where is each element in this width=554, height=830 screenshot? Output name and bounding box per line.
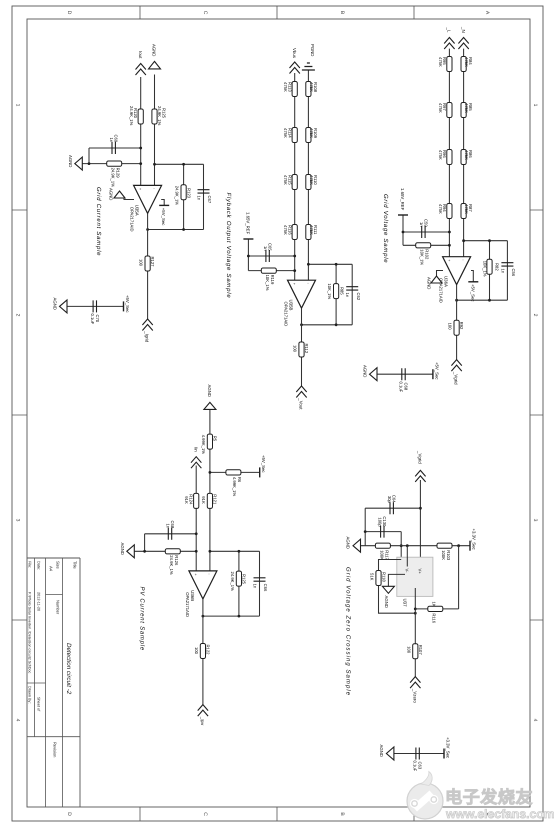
frame row ticks left xyxy=(140,6,414,19)
svg-text:475K: 475K xyxy=(438,57,443,67)
svg-text:R85: R85 xyxy=(340,287,345,295)
svg-text:AGND: AGND xyxy=(152,44,157,56)
power +5V_Sec bar U35A xyxy=(159,204,169,206)
wire PV plus rail xyxy=(195,466,197,571)
svg-text:475K: 475K xyxy=(464,204,469,214)
wire Iout input rail xyxy=(140,77,142,185)
resistor R125 24.9K_1% xyxy=(236,571,241,586)
resistor R92 100 xyxy=(454,320,459,335)
resistor R127 100 xyxy=(145,256,150,271)
junction REF rail / C65 xyxy=(247,255,250,258)
resistor R102 10K_1% xyxy=(416,243,431,248)
svg-text:Drawn By:: Drawn By: xyxy=(28,686,32,704)
junction link / R126 branch xyxy=(143,550,146,553)
svg-text:24.9K_1%: 24.9K_1% xyxy=(129,106,134,126)
svg-text:10K_1%: 10K_1% xyxy=(483,261,488,277)
svg-text:1: 1 xyxy=(15,104,21,107)
svg-text:C67: C67 xyxy=(207,196,212,204)
svg-text:PGND: PGND xyxy=(310,44,315,56)
resistor R6 4.99K_1% xyxy=(226,470,241,475)
svg-text:+5V_Sec: +5V_Sec xyxy=(161,208,166,226)
svg-text:R122: R122 xyxy=(205,645,210,656)
svg-text:OPA2171AID: OPA2171AID xyxy=(284,302,289,327)
ground AGND flag U35A V- xyxy=(114,191,125,198)
ground AGND flag U36A V- xyxy=(431,276,442,283)
svg-text:10K_1%: 10K_1% xyxy=(327,283,332,299)
wire C56 branch xyxy=(506,241,508,301)
svg-text:+3.3V_Sec: +3.3V_Sec xyxy=(446,737,451,759)
svg-text:AGND: AGND xyxy=(384,596,389,608)
power port 1.65V_REF bar flyback xyxy=(243,238,253,240)
op-amp U36A OPA2171AID xyxy=(443,257,471,285)
ground AGND flag PV input xyxy=(204,402,216,409)
resistor R122 100 xyxy=(200,644,205,659)
resistor R123 24.9K_1% xyxy=(181,185,186,200)
svg-text:R116: R116 xyxy=(432,613,437,623)
ground AGND flag C68 xyxy=(370,368,378,381)
ground AGND flag C63 xyxy=(386,747,394,760)
junction rail / R116 link xyxy=(457,544,460,547)
junction R102 / _L wire xyxy=(448,244,451,247)
junction C130 / AGND link xyxy=(364,530,367,533)
wire C62 branch xyxy=(351,264,353,325)
svg-text:R121: R121 xyxy=(212,494,217,505)
svg-text:2: 2 xyxy=(532,314,538,317)
svg-text:475K: 475K xyxy=(464,150,469,160)
svg-text:Vbus: Vbus xyxy=(292,48,297,59)
svg-text:475K: 475K xyxy=(438,150,443,160)
junction feedback / minus rail xyxy=(209,550,212,553)
wire R118 path xyxy=(379,560,416,614)
svg-text:4.99K_1%: 4.99K_1% xyxy=(201,435,206,455)
wire U37 ground pin xyxy=(388,574,405,586)
svg-text:475K: 475K xyxy=(464,103,469,113)
svg-text:1.65V_REF: 1.65V_REF xyxy=(245,212,250,235)
svg-text:B: B xyxy=(339,812,345,816)
wire C69 branch xyxy=(89,147,141,149)
port _L connector xyxy=(444,38,454,50)
svg-text:C66: C66 xyxy=(263,584,268,592)
resistor R118 51K xyxy=(376,571,381,586)
resistor R97 475K xyxy=(447,103,452,118)
svg-text:1n: 1n xyxy=(419,222,424,227)
capacitor C66 1n xyxy=(254,578,266,581)
frame column ticks top xyxy=(530,210,543,620)
ground AGND flag U37 xyxy=(382,586,394,593)
svg-text:Sheet of: Sheet of xyxy=(37,697,41,712)
svg-text:4.99K_1%: 4.99K_1% xyxy=(232,477,237,497)
junction C59 / _L wire xyxy=(448,231,451,234)
wire U36B output xyxy=(202,599,204,705)
wire U36A feedback riser xyxy=(464,240,508,242)
resistor R107 100 xyxy=(413,644,418,659)
svg-text:+5V_Sec: +5V_Sec xyxy=(125,295,130,313)
port _Vout output connector xyxy=(296,386,306,398)
svg-text:D: D xyxy=(66,11,72,15)
svg-text:24.9K_1%: 24.9K_1% xyxy=(230,572,235,592)
svg-text:100: 100 xyxy=(448,323,453,331)
junction pull / minus rail xyxy=(209,471,212,474)
port _Vgrid output connector xyxy=(451,360,461,372)
svg-text:C: C xyxy=(202,812,208,816)
frame row ticks right xyxy=(140,807,414,821)
wire U36A output riser xyxy=(457,299,508,301)
port _Igrid output connector xyxy=(142,319,152,331)
port _Vgrid input connector xyxy=(415,470,425,482)
svg-text:30p: 30p xyxy=(387,496,392,504)
svg-text:1.65V_REF: 1.65V_REF xyxy=(400,188,405,211)
power ground PGND symbol xyxy=(302,63,315,70)
capacitor C59 1n xyxy=(422,226,425,238)
svg-text:AGND: AGND xyxy=(120,543,125,555)
svg-text:24.9K_1%: 24.9K_1% xyxy=(175,186,180,206)
svg-text:R82: R82 xyxy=(495,263,500,271)
capacitor C70 0.1uF xyxy=(93,300,96,312)
wire U35B feedback riser xyxy=(308,263,352,265)
svg-text:1n: 1n xyxy=(263,246,268,251)
wire U35A output riser xyxy=(148,229,204,231)
power +5V_Sec bar PV pull xyxy=(259,467,261,477)
power +5V_Sec bar U36A xyxy=(468,281,478,283)
resistor R129 24.9K_1% xyxy=(107,161,122,166)
resistor R119 10K_1% xyxy=(261,268,276,273)
wire R126 branch xyxy=(134,550,196,552)
power +5V_Sec bar C70 xyxy=(123,301,125,311)
wire U35A feedback riser xyxy=(155,163,204,165)
wire U36A V+ pin xyxy=(471,271,473,282)
svg-text:U37: U37 xyxy=(402,599,407,608)
title block outline xyxy=(27,558,80,807)
resistor R115 475K xyxy=(292,175,297,190)
capacitor C69 1n xyxy=(112,142,115,154)
svg-text:Flyback Output Voltage Sample: Flyback Output Voltage Sample xyxy=(225,193,232,299)
svg-text:475K: 475K xyxy=(438,103,443,113)
svg-text:R5: R5 xyxy=(212,436,217,442)
junction output riser / output wire xyxy=(146,228,149,231)
wire V- stub xyxy=(406,546,408,567)
svg-text:A: A xyxy=(484,11,490,15)
svg-text:100p: 100p xyxy=(378,517,383,527)
wire U35A V+ pin xyxy=(161,200,164,206)
resistor R109 475K xyxy=(306,128,311,143)
svg-text:R118: R118 xyxy=(382,572,387,582)
resistor R110 475K xyxy=(306,175,311,190)
svg-text:_Ipv: _Ipv xyxy=(200,716,205,726)
power +3.3V_Sec bar C63 xyxy=(443,749,445,759)
capacitor C68 1n xyxy=(168,528,171,540)
port Vbus connector xyxy=(290,62,300,74)
svg-text:AGND: AGND xyxy=(346,537,351,549)
svg-text:AGND: AGND xyxy=(363,365,368,377)
svg-text:100K: 100K xyxy=(380,550,385,560)
resistor R116 475K xyxy=(292,225,297,240)
svg-text:R107: R107 xyxy=(418,645,423,656)
junction riser / R125 branch xyxy=(238,550,241,553)
port _Vzero output connector xyxy=(410,677,420,689)
svg-text:91K: 91K xyxy=(201,496,206,504)
svg-text:电子发烧友: 电子发烧友 xyxy=(445,787,533,807)
junction C69 / Iout wire xyxy=(139,147,142,150)
resistor R108 475K xyxy=(306,82,311,97)
wire C69 to R129 link xyxy=(88,148,90,164)
wire +5V to C70 to AGND xyxy=(67,305,124,307)
junction output riser / output wire xyxy=(455,299,458,302)
svg-text:475K: 475K xyxy=(283,175,288,185)
svg-text:4: 4 xyxy=(15,719,21,722)
wire PGND chain xyxy=(307,70,309,280)
capacitor C63 0.1uF xyxy=(416,748,419,760)
svg-text:+5V_Sec: +5V_Sec xyxy=(434,362,439,380)
junction feedback / _N wire xyxy=(462,239,465,242)
resistor R82 10K_1% xyxy=(487,259,492,274)
svg-text:+3.3V_Sec: +3.3V_Sec xyxy=(472,529,477,551)
junction output riser / output wire xyxy=(300,323,303,326)
wire U35B output xyxy=(301,308,303,386)
wire U35A output xyxy=(147,213,149,319)
svg-text:Grid Voltage Sample: Grid Voltage Sample xyxy=(382,194,389,263)
svg-text:2012-11-20: 2012-11-20 xyxy=(37,592,41,611)
svg-text:51K: 51K xyxy=(370,573,375,581)
port Iout connector xyxy=(136,64,146,76)
svg-text:2: 2 xyxy=(15,314,21,317)
junction R82 / output riser xyxy=(488,299,491,302)
junction feedback / PGND wire xyxy=(307,263,310,266)
port _N connector xyxy=(458,38,468,50)
wire R125 branch PV xyxy=(238,551,240,616)
junction output / R116 branch xyxy=(414,608,417,611)
wire C65 branch xyxy=(248,255,294,257)
svg-text:V+: V+ xyxy=(418,569,423,575)
title block row line 1 xyxy=(62,558,64,807)
op-amp U36B OPA2171AID xyxy=(189,571,217,599)
junction C64 / _Vgrid wire xyxy=(419,507,422,510)
svg-text:475K: 475K xyxy=(464,57,469,67)
power +3.3V_Sec bar rail xyxy=(469,541,471,551)
wire U36B output riser xyxy=(203,615,260,617)
wire R116 to +3.3V link xyxy=(458,546,460,609)
wire _N chain xyxy=(463,49,465,257)
resistor R117 100K xyxy=(375,543,390,548)
svg-text:R112: R112 xyxy=(304,344,309,354)
wire AGND link zero-crossing xyxy=(364,508,366,546)
capacitor C68 0.1uF xyxy=(402,368,405,380)
svg-text:475K: 475K xyxy=(309,128,314,138)
svg-text:3: 3 xyxy=(532,519,538,522)
wire R123 branch xyxy=(183,164,185,229)
svg-text:OPA2171AID: OPA2171AID xyxy=(130,207,135,232)
resistor R5 4.99K_1% xyxy=(207,434,212,449)
wire C130 elbow to rail xyxy=(400,532,402,560)
junction riser / R82 branch xyxy=(488,239,491,242)
junction elbow / bias rail xyxy=(400,544,403,547)
comparator U37 body xyxy=(397,557,433,596)
junction feedback / AGND-input wire xyxy=(153,163,156,166)
junction riser / R123 branch xyxy=(182,163,185,166)
svg-text:AGND: AGND xyxy=(427,277,432,289)
svg-text:AGND: AGND xyxy=(109,188,114,200)
frame column ticks bottom xyxy=(12,210,27,620)
wire C64 branch xyxy=(365,507,420,509)
resistor R113 475K xyxy=(292,82,297,97)
svg-text:Date:: Date: xyxy=(37,561,41,570)
svg-text:Title: Title xyxy=(73,561,78,569)
junction rail / V- stub xyxy=(406,544,409,547)
svg-text:Revision: Revision xyxy=(53,742,58,757)
svg-text:+5V_Sec: +5V_Sec xyxy=(261,455,266,473)
wire C68 to R126 link xyxy=(144,534,146,552)
svg-text:475K: 475K xyxy=(283,128,288,138)
svg-text:C62: C62 xyxy=(356,293,361,301)
junction REF rail / C59 xyxy=(402,231,405,234)
svg-text:100: 100 xyxy=(139,259,144,267)
svg-text:10K_1%: 10K_1% xyxy=(265,275,270,291)
svg-text:24.9K_1%: 24.9K_1% xyxy=(110,168,115,188)
svg-text:PV Current Sample: PV Current Sample xyxy=(139,587,146,651)
ground AGND flag bias rail xyxy=(353,539,361,552)
resistor R87 475K xyxy=(461,204,466,219)
svg-text:Grid Current Sample: Grid Current Sample xyxy=(95,187,102,256)
wire U35A V- pin xyxy=(124,197,134,200)
svg-text:Iin: Iin xyxy=(193,447,198,452)
svg-text:0.1uF: 0.1uF xyxy=(399,382,404,393)
svg-text:_N: _N xyxy=(461,26,466,33)
svg-text:Size: Size xyxy=(56,561,61,570)
junction C68 / plus rail xyxy=(195,532,198,535)
svg-text:100: 100 xyxy=(406,646,411,654)
svg-text:_Vzero: _Vzero xyxy=(412,688,417,703)
wire U35B output riser xyxy=(302,324,353,326)
wire R116 branch xyxy=(415,608,458,610)
ground AGND flag input xyxy=(149,61,161,69)
resistor R120 24.9K_1% xyxy=(138,109,143,124)
svg-text:C: C xyxy=(202,11,208,15)
svg-text:1n: 1n xyxy=(252,584,257,589)
capacitor C65 1n xyxy=(266,250,269,262)
svg-text:AGND: AGND xyxy=(68,155,73,167)
wire Vbus chain xyxy=(294,73,296,280)
junction output riser / output wire xyxy=(202,615,205,618)
svg-text:1n: 1n xyxy=(196,196,201,201)
wire _Vgrid input xyxy=(419,480,421,567)
svg-text:D: D xyxy=(66,812,72,816)
svg-text:3: 3 xyxy=(15,519,21,522)
wire U36A output xyxy=(456,285,458,360)
resistor R116 1K xyxy=(428,606,443,611)
op-amp U35B OPA2171AID xyxy=(288,280,316,308)
resistor R124 91K xyxy=(194,493,199,508)
junction link / R129 branch xyxy=(88,162,91,165)
svg-text:1n: 1n xyxy=(109,138,114,143)
junction C65 / Vbus wire xyxy=(293,255,296,258)
wire U36B feedback riser xyxy=(210,550,260,552)
power port 1.65V_REF bar xyxy=(398,214,408,216)
svg-text:Iout: Iout xyxy=(138,51,143,59)
svg-text:F:\Photo Solar Inverter\..\Det: F:\Photo Solar Inverter\..\Detection cir… xyxy=(28,592,32,673)
svg-text:R92: R92 xyxy=(459,322,464,330)
svg-text:_L: _L xyxy=(447,27,452,33)
svg-text:OPA2171AID: OPA2171AID xyxy=(185,592,190,617)
resistor R111 475K xyxy=(306,225,311,240)
svg-text:R123: R123 xyxy=(186,188,191,199)
op-amp U35A OPA2171AID xyxy=(134,185,162,213)
wire _L chain xyxy=(448,49,450,257)
wire R82 branch xyxy=(489,241,491,301)
title block row line 2 xyxy=(45,558,47,807)
svg-text:100K: 100K xyxy=(441,550,446,560)
resistor R126 24.9K_1% xyxy=(165,549,180,554)
svg-text:AGND: AGND xyxy=(379,745,384,757)
resistor R96 475K xyxy=(447,150,452,165)
svg-text:10K_1%: 10K_1% xyxy=(420,249,425,265)
wire AGND input rail xyxy=(154,75,156,186)
svg-text:V-: V- xyxy=(405,569,410,574)
wire C66 branch xyxy=(259,551,261,616)
ground AGND flag C68/R126 xyxy=(127,545,135,558)
svg-text:+5V_Sec: +5V_Sec xyxy=(471,284,476,302)
junction R118 / output wire xyxy=(414,612,417,615)
svg-text:Grid Voltage Zero Crossing Sam: Grid Voltage Zero Crossing Sample xyxy=(345,567,352,696)
resistor R94 475K xyxy=(447,204,452,219)
capacitor C64 30p xyxy=(390,502,393,514)
resistor R85 475K xyxy=(461,103,466,118)
capacitor C56 1n xyxy=(501,263,513,266)
wire R119 branch xyxy=(248,270,294,272)
resistor R121 91K xyxy=(207,493,212,508)
svg-text:B: B xyxy=(339,11,345,15)
resistor R95 475K xyxy=(447,57,452,72)
port Iin connector xyxy=(191,457,201,469)
svg-text:Detection circuit -2: Detection circuit -2 xyxy=(65,643,72,695)
svg-text:4: 4 xyxy=(532,719,538,722)
svg-text:_Vout: _Vout xyxy=(299,397,304,410)
resistor R114 475K xyxy=(292,128,297,143)
svg-text:0.1uF: 0.1uF xyxy=(413,761,418,772)
svg-text:R125: R125 xyxy=(242,574,247,585)
svg-text:File:: File: xyxy=(28,561,32,568)
svg-text:475K: 475K xyxy=(309,175,314,185)
wire +5V pull branch xyxy=(210,471,260,473)
svg-text:475K: 475K xyxy=(309,82,314,92)
svg-text:C56: C56 xyxy=(511,269,516,277)
wire C67 branch xyxy=(203,164,205,229)
resistor R103 100K xyxy=(437,543,452,548)
svg-text:www.elecfans.com: www.elecfans.com xyxy=(445,807,554,821)
svg-text:475K: 475K xyxy=(438,204,443,214)
junction R129 / Iout wire xyxy=(139,162,142,165)
svg-text:475K: 475K xyxy=(283,82,288,92)
junction R126 / plus rail xyxy=(195,550,198,553)
svg-text:1n: 1n xyxy=(345,293,350,298)
capacitor C62 1n xyxy=(346,287,358,290)
wire U36A V- pin xyxy=(437,271,444,277)
svg-text:475K: 475K xyxy=(283,225,288,235)
ground AGND flag C69/R129 xyxy=(75,157,83,170)
svg-text:1n: 1n xyxy=(500,269,505,274)
port _Ipv output connector xyxy=(198,705,208,717)
title block divider size/number xyxy=(46,594,63,596)
watermark logo circle xyxy=(407,772,443,820)
ground AGND flag C70 xyxy=(60,300,68,313)
svg-text:1n: 1n xyxy=(165,524,170,529)
svg-text:_Vgrid: _Vgrid xyxy=(417,450,422,464)
svg-text:475K: 475K xyxy=(309,225,314,235)
svg-text:24.9K_1%: 24.9K_1% xyxy=(169,555,174,575)
wire 1.65V_REF rail flyback xyxy=(247,239,249,271)
svg-text:Number: Number xyxy=(56,600,61,615)
wire R85 branch xyxy=(335,264,337,325)
wire +5V to C68 to AGND xyxy=(377,373,433,375)
svg-text:91K: 91K xyxy=(184,496,189,504)
